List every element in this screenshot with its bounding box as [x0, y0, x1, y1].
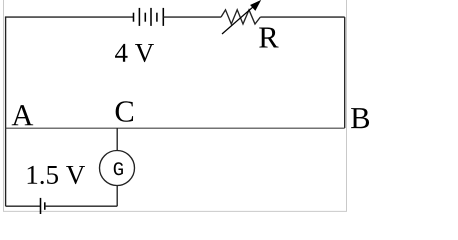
wire galvanometer to bottom — [116, 186, 118, 207]
node C — [116, 101, 133, 121]
node A — [12, 105, 34, 125]
rheostat wiper arrow — [222, 1, 261, 35]
wire C to galvanometer — [116, 128, 118, 151]
wire bottom-left (to 1.5V cell) — [6, 205, 41, 207]
value label 1.5 V — [28, 166, 85, 184]
battery B2 1.5V (single cell) — [41, 198, 45, 214]
value label 4 V — [115, 44, 154, 62]
galvanometer G — [100, 151, 135, 186]
rheostat R zigzag — [221, 10, 260, 24]
battery B1 4V (3 cells) — [134, 8, 164, 26]
wire bottom-right (cell to galvanometer branch) — [45, 205, 117, 207]
node B — [351, 108, 369, 128]
wire top-right (rheostat to B corner) — [260, 16, 344, 18]
wire middle A-C-B — [6, 127, 345, 129]
wire right (down to B) — [344, 17, 346, 128]
wire top-middle (battery to rheostat) — [163, 16, 221, 18]
wire left (A side, top corner down to bottom loop) — [5, 17, 7, 206]
wire top-left (A corner to battery) — [5, 16, 134, 18]
label R — [259, 28, 278, 48]
